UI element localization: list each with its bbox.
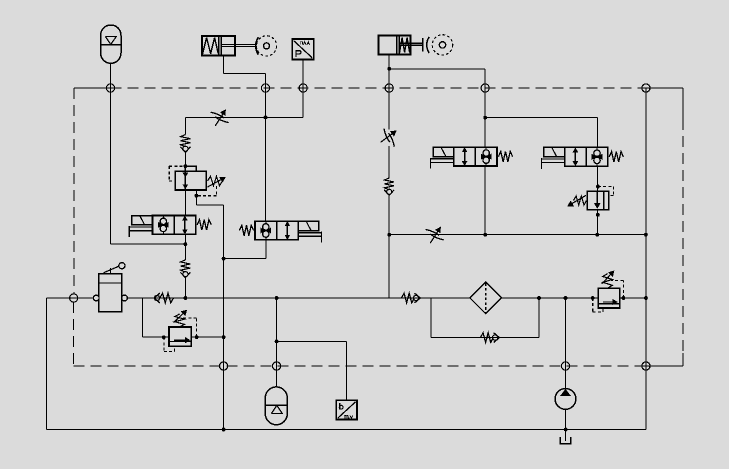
solenoid valve V3 [431, 147, 513, 168]
node N7 [70, 294, 78, 302]
wire right return rail [645, 88, 647, 430]
wire relief RL2 outlet [620, 297, 646, 299]
pilot line RL1 left [164, 337, 175, 351]
wire valve V4 drop [596, 167, 598, 235]
wire cylinder C1 outlet [223, 56, 265, 222]
check valve CV1 [180, 135, 190, 153]
variable throttle TH1 [211, 110, 229, 126]
pilot line RL2 right [611, 281, 623, 299]
wire main rail x185 [184, 152, 186, 298]
solenoid valve V4 [541, 147, 623, 168]
wire pressure switch drop [185, 60, 303, 135]
variable throttle TH2 [381, 129, 396, 147]
node N6 [642, 84, 650, 92]
wire accumulator A2 branch [277, 298, 347, 400]
wire: top boundary solid segment left [74, 87, 111, 89]
cylinder C1 [202, 36, 257, 56]
dashed enclosure right edge [646, 88, 683, 366]
pump P1 [555, 389, 576, 410]
wire cylinder C2 outlet [389, 55, 485, 148]
check valve CV2 [180, 260, 190, 278]
check valve CV5 [402, 293, 421, 303]
wire: top boundary solid segment right [646, 87, 683, 89]
dashed enclosure left edge [73, 88, 75, 366]
wire collector rail y234 [389, 234, 646, 236]
node N3 [299, 84, 307, 92]
pilot line RV1 left [169, 166, 185, 181]
dashed enclosure top edge [111, 87, 647, 89]
wire throttle branch x389 [388, 146, 390, 298]
wire filter bypass [431, 298, 539, 338]
node N10 [561, 362, 569, 370]
relief valve RL1 [169, 311, 191, 347]
solenoid valve V1 [129, 216, 211, 237]
wire left supply rail [47, 298, 646, 430]
pilot line RV3 [598, 187, 614, 196]
wire branch to valve V4 [485, 118, 597, 148]
variable throttle TH3 [426, 228, 444, 244]
node N1 [106, 84, 114, 92]
roller follower of C1 [256, 36, 277, 56]
node N8 [220, 362, 228, 370]
pressure reducing valve RV1 [175, 166, 225, 190]
pressure reducing valve RV3 [568, 191, 609, 209]
node N4 [385, 84, 393, 92]
relief valve RL2 [598, 271, 619, 308]
solenoid valve V2 [239, 221, 321, 242]
cylinder C2 [378, 35, 422, 54]
wire relief RL1 branch [142, 298, 169, 337]
wire valve V2 outlet [224, 240, 266, 259]
wire reducing valve R1 outlet [196, 190, 223, 430]
wire pump P1 branch [565, 298, 567, 441]
check valve CV3 [384, 178, 394, 195]
dashed enclosure bottom edge [74, 365, 646, 367]
pilot line RL2 left [593, 298, 603, 312]
node N2 [261, 84, 269, 92]
node N9 [273, 362, 281, 370]
node N5 [481, 84, 489, 92]
wire valve V3 drop [484, 166, 486, 235]
pressure switch PS1 [292, 39, 314, 59]
filter F1 [470, 282, 502, 314]
wire relief RL1 outlet [191, 336, 223, 338]
accumulator A1 [101, 25, 121, 63]
pilot line RL1 right [182, 318, 197, 337]
check valve CV6 [481, 333, 500, 343]
node N11 [642, 362, 650, 370]
wire pump rail y298 left [127, 297, 469, 299]
roller follower of C2 [423, 35, 453, 55]
wire accumulator A1 drop [111, 63, 186, 244]
pilot line RV1 drain [196, 186, 216, 196]
check valve CV4 [154, 293, 173, 303]
accumulator A2 [265, 387, 287, 425]
gauge box B1 [336, 400, 357, 419]
hand pump HP1 [93, 263, 127, 312]
tank T1 [560, 437, 571, 444]
wire pump rail y298 right [500, 297, 646, 299]
